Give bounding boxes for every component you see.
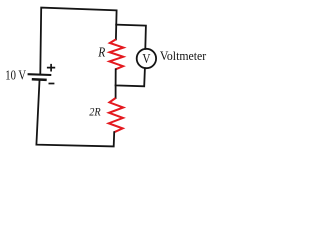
svg-text:R: R (97, 44, 105, 59)
svg-text:10 V: 10 V (5, 68, 26, 83)
wire: R branch lower vertical, bottom horizontal of parallel section, voltmeter lower vertical (116, 68, 145, 86)
resistor R (red zigzag) (109, 39, 123, 69)
svg-text:2R: 2R (89, 105, 101, 119)
wire: vertical from bottom junction down to 2R (115, 85, 117, 98)
wire: voltmeter top tap horizontal and upper vertical (116, 25, 146, 49)
battery plus sign (47, 64, 55, 72)
svg-text:Voltmeter: Voltmeter (160, 49, 207, 63)
wire: below 2R, bottom wire, left lower wire (36, 81, 114, 147)
battery bottom plate (short) (32, 78, 47, 81)
resistor 2R (red zigzag) (109, 98, 124, 132)
wire: top wire, left upper wire, R branch upper vertical (40, 8, 116, 74)
voltmeter circle (137, 49, 156, 68)
battery minus sign (49, 83, 55, 85)
battery top plate (long) (28, 73, 52, 76)
svg-text:V: V (142, 51, 150, 66)
